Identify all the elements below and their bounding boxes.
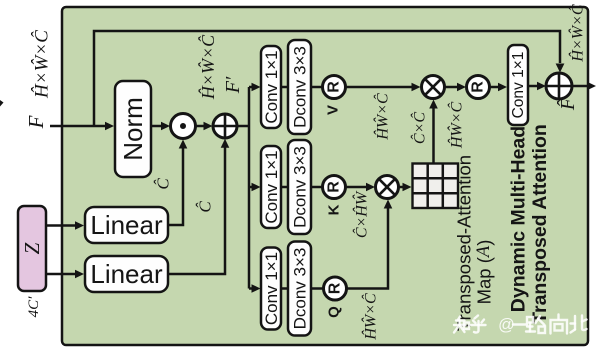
label transposed-attention map [454,155,495,331]
wire V R to matmul top [346,83,421,92]
norm box [115,81,151,177]
svg-text:R: R [470,81,487,93]
wire trunk to K conv [249,183,261,192]
Z input box [18,206,46,291]
svg-text:K: K [326,204,343,215]
wire Z to linear 2 [46,270,84,279]
linear box 2 [85,256,168,292]
wire matmul KQ to attention map [399,183,412,192]
svg-text:Linear: Linear [90,259,163,289]
V dconv 3x3 box [288,40,311,134]
svg-text:Ĥ×Ŵ×Ĉ: Ĥ×Ŵ×Ĉ [31,30,53,99]
add node F' [213,114,237,138]
wire output [572,82,596,91]
wire linear 2 to add [168,139,229,274]
wm char yi [513,323,527,325]
svg-text:Z: Z [20,242,44,254]
svg-text:4C′: 4C′ [26,296,42,318]
svg-text:Map (A): Map (A) [474,240,495,305]
svg-text:Ĉ×ĤŴ: Ĉ×ĤŴ [352,190,371,238]
svg-text:Norm: Norm [118,97,148,161]
wire V conv to dconv [281,86,288,89]
svg-text:F̂: F̂ [556,97,579,111]
wire Q R up to matmul KQ [347,200,393,289]
svg-text:Transposed-Attention: Transposed-Attention [454,155,475,331]
svg-text:Q: Q [326,306,343,318]
svg-text:ĤŴ×Ĉ: ĤŴ×Ĉ [361,293,380,341]
svg-text:Ĉ: Ĉ [154,178,173,190]
wire skip connection top [94,31,564,126]
svg-text:V: V [325,105,342,115]
wire F input [50,122,114,131]
matmul node V-attention [422,76,445,99]
wire Q dconv to R [311,287,324,290]
output conv 1x1 box [508,45,528,125]
wire linear 1 to multiply [168,140,187,226]
reshape node R (V path) [323,76,346,99]
svg-text:Linear: Linear [90,210,163,240]
svg-text:Ĥ×Ŵ×Ĉ: Ĥ×Ŵ×Ĉ [568,4,587,62]
reshape node R (K path) [323,176,346,199]
svg-text:Dconv 3×3: Dconv 3×3 [291,46,310,128]
svg-text:Ĉ×Ĉ: Ĉ×Ĉ [410,112,429,144]
K dconv 3x3 box [288,140,311,234]
svg-text:Conv 1×1: Conv 1×1 [262,150,281,223]
wire K conv to dconv [281,186,288,189]
wm char hu [471,316,486,333]
matmul node KQ [376,176,399,199]
wire trunk to Q conv [249,284,261,293]
svg-text:Dynamic Multi-Head: Dynamic Multi-Head [508,126,530,312]
wire R out to conv [490,83,508,92]
wire Q conv to dconv [281,287,288,290]
wm char zhi [454,317,469,333]
wire multiply to add [196,122,213,131]
watermark zhihu [454,315,587,335]
V conv 1x1 box [261,46,281,128]
wire conv to final add [528,82,546,91]
wm char xiang [551,315,568,334]
svg-text:Conv 1×1: Conv 1×1 [262,50,281,123]
svg-text:R: R [326,81,343,93]
svg-text:F′: F′ [222,76,244,94]
left margin stray mark [0,100,4,107]
wire attention map up to matmul V [429,100,438,164]
wire F' trunk [237,87,249,289]
K conv 1x1 box [261,146,281,228]
wire trunk to V conv [249,83,261,92]
svg-text:Ĉ: Ĉ [196,201,215,213]
svg-text:ĤŴ×Ĉ: ĤŴ×Ĉ [447,102,466,150]
linear box 1 [85,207,168,243]
wire Z to linear 1 [46,221,84,230]
attention map grid [413,164,459,209]
svg-text:Conv 1×1: Conv 1×1 [510,52,527,119]
wire K dconv to R [311,186,323,189]
svg-text:F: F [24,115,48,129]
svg-text:Dconv 3×3: Dconv 3×3 [291,248,310,330]
svg-text:Dconv 3×3: Dconv 3×3 [291,146,310,228]
Q dconv 3x3 box [288,242,311,336]
wire K R to matmul KQ [346,183,376,192]
wire norm to multiply [151,122,170,131]
svg-text:Transposed Attention: Transposed Attention [529,124,551,324]
svg-text:Conv 1×1: Conv 1×1 [262,252,281,325]
svg-text:R: R [326,181,343,193]
final add node [546,73,572,99]
Q conv 1x1 box [261,248,281,330]
label dynamic multi-head transposed attention [508,124,552,324]
reshape node R (Q path) [324,277,347,300]
wire V dconv to R [311,86,323,89]
reshape node R (output) [467,76,490,99]
wm char lu [526,316,545,333]
svg-text:Ĥ×Ŵ×Ĉ: Ĥ×Ŵ×Ĉ [197,34,218,100]
svg-text:R: R [327,282,344,294]
svg-text:ĤŴ×Ĉ: ĤŴ×Ĉ [373,93,392,141]
wm char bei [571,316,587,333]
wire matmul to R out [445,83,467,92]
multiply node (dot) [171,114,196,139]
